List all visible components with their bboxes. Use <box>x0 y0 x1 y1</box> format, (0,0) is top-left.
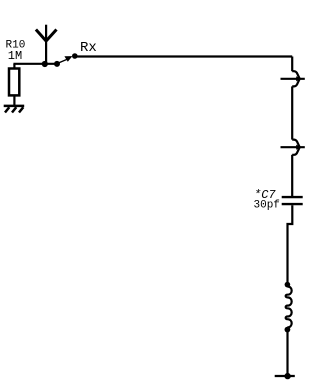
svg-text:Rx: Rx <box>80 40 97 56</box>
svg-text:1M: 1M <box>8 49 22 63</box>
svg-text:30pf: 30pf <box>254 200 280 212</box>
